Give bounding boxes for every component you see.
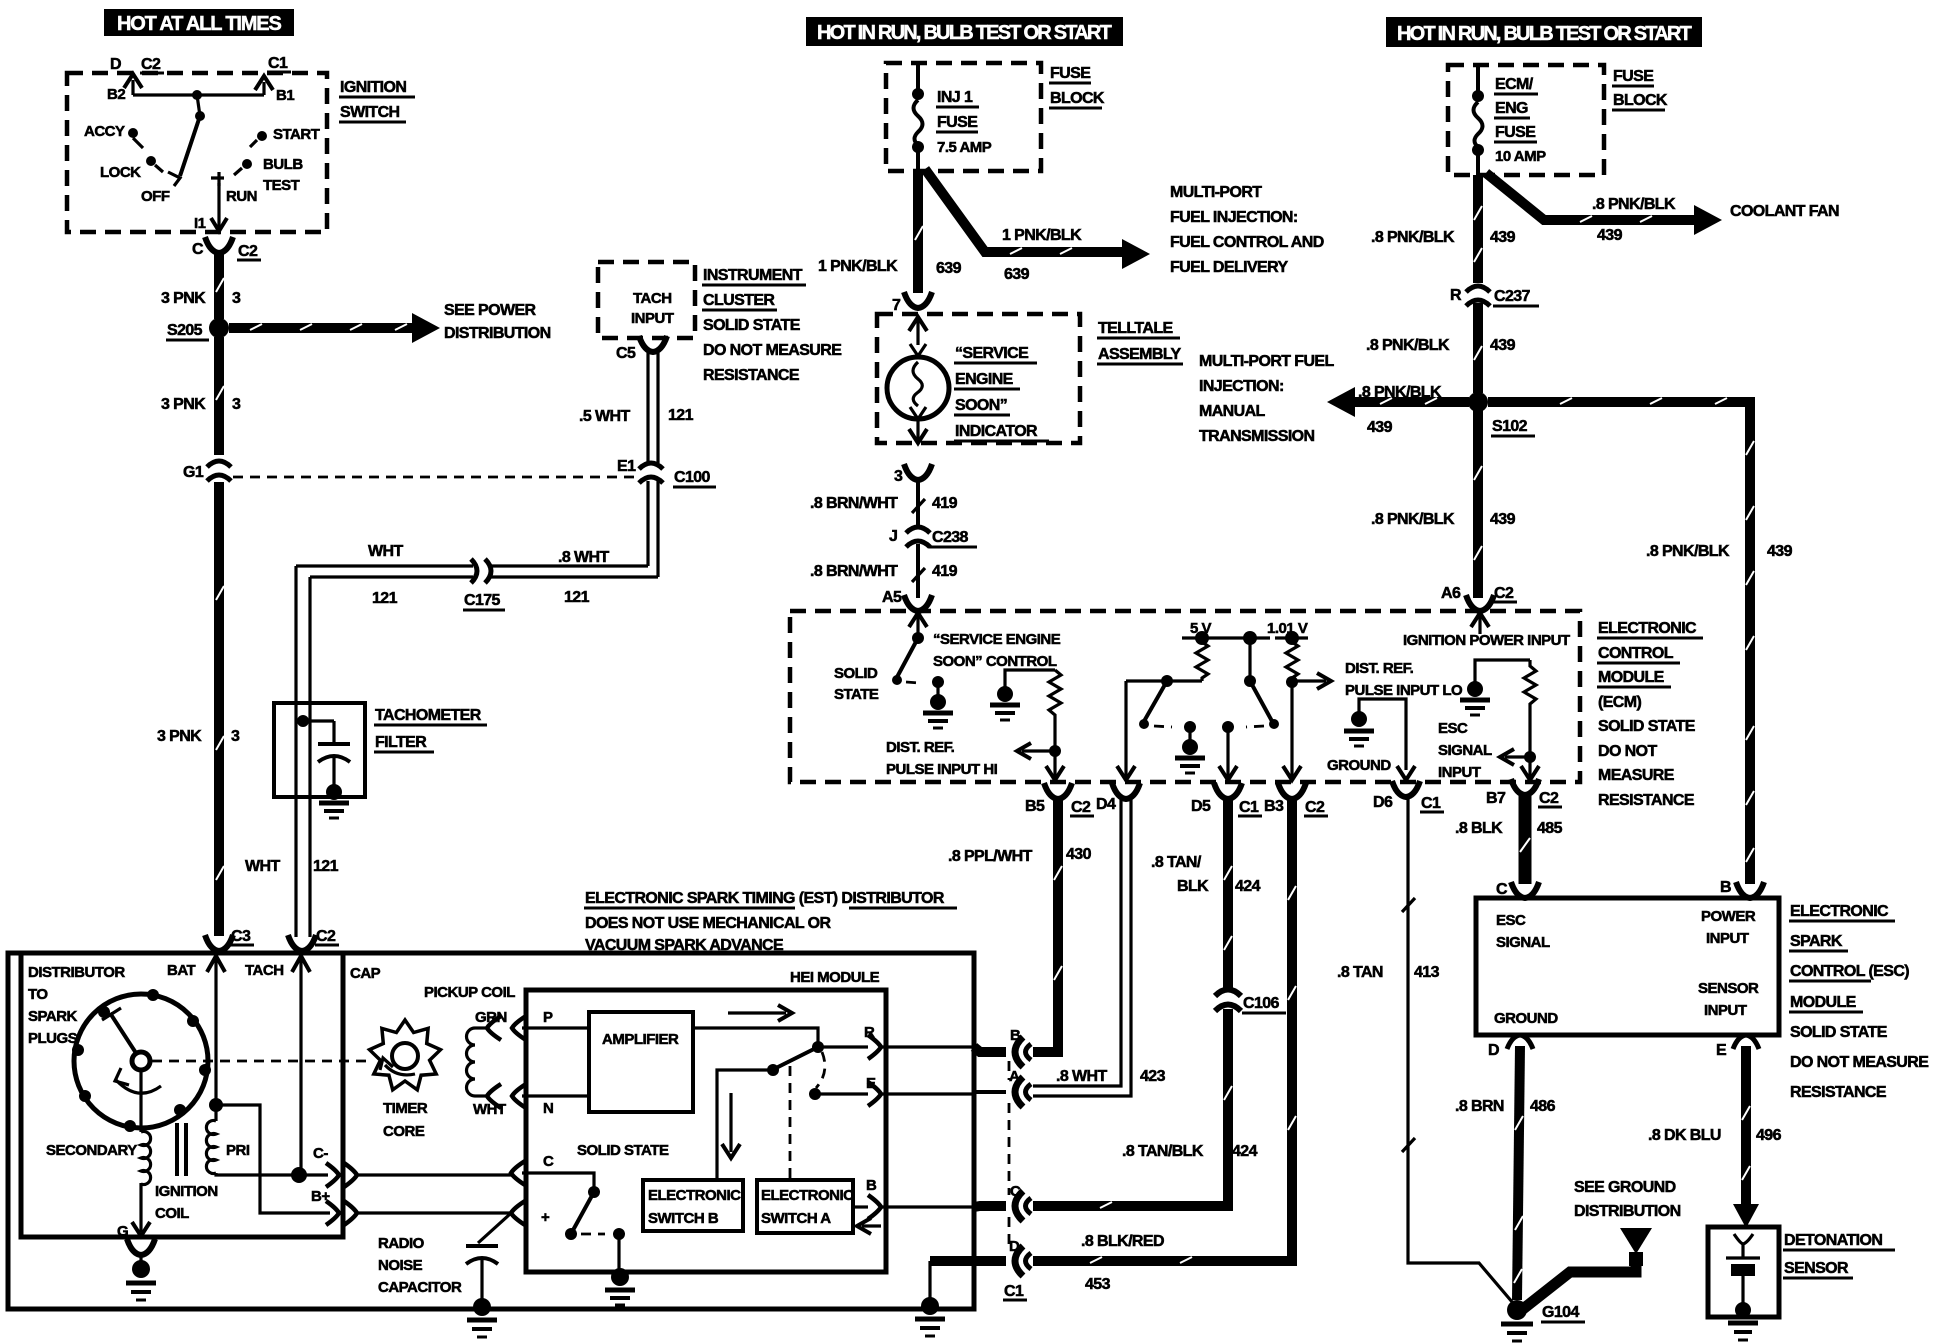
filter capacitor [303,719,334,722]
svg-text:RUN: RUN [226,188,257,205]
svg-text:ELECTRONIC: ELECTRONIC [1598,620,1697,637]
wire .8 BLK 485 (B7 to ESC C) [1519,792,1532,884]
svg-text:.8 BLK: .8 BLK [1455,820,1503,837]
svg-text:496: 496 [1756,1127,1782,1144]
svg-text:121: 121 [372,590,398,607]
svg-text:J: J [889,528,897,545]
START contact [257,131,267,141]
svg-text:PULSE INPUT HI: PULSE INPUT HI [886,761,998,778]
connector C106 [1213,990,1243,1012]
svg-text:SENSOR: SENSOR [1698,980,1759,997]
coil core bars [175,1123,179,1176]
svg-text:439: 439 [1767,543,1793,560]
wire 3 PNK G1 to C3 [214,482,224,936]
svg-text:C106: C106 [1243,995,1280,1012]
svg-text:DOES NOT USE MECHANICAL OR: DOES NOT USE MECHANICAL OR [585,915,832,932]
dashed wire G1 to C100 [233,476,638,479]
entry arrow into telltale [916,316,919,345]
svg-text:B7: B7 [1486,790,1506,807]
dashed link between connectors [1008,1061,1011,1080]
dashed link rotor to timer core [152,1060,371,1063]
svg-text:C3: C3 [231,928,251,945]
arrow to dist ref lo [1292,679,1326,682]
svg-text:D: D [1488,1042,1499,1059]
svg-text:B3: B3 [1264,798,1284,815]
svg-text:DO NOT MEASURE: DO NOT MEASURE [703,342,842,359]
resistor under 1.01V [1286,638,1298,681]
node below [195,111,205,121]
svg-text:PULSE INPUT LO: PULSE INPUT LO [1345,682,1463,699]
wire S102 down to A6 [1473,402,1483,598]
wire arrow up to C2 [131,80,134,95]
svg-text:S205: S205 [167,322,203,339]
BULB TEST contact [242,159,252,169]
dashed lever alternate to E [816,1052,825,1088]
svg-text:TEST: TEST [263,177,300,194]
primary winding [209,1098,223,1112]
svg-text:.8 TAN/: .8 TAN/ [1151,854,1202,871]
svg-text:D6: D6 [1373,794,1393,811]
amplifier box [589,1012,693,1112]
svg-text:LOCK: LOCK [100,164,141,181]
ACCY contact [128,128,138,138]
svg-text:ACCY: ACCY [84,123,125,140]
middle comparator [1248,638,1251,681]
wire .8 PPL/WHT 430 (B5 to dist B) [1033,796,1058,1052]
svg-text:OFF: OFF [141,188,170,205]
svg-text:D5: D5 [1191,798,1211,815]
svg-text:HOT AT ALL TIMES: HOT AT ALL TIMES [117,13,282,35]
svg-text:ELECTRONIC SPARK TIMING (EST): ELECTRONIC SPARK TIMING (EST) DISTRIBUTO… [585,890,945,907]
svg-text:FUSE: FUSE [937,114,978,131]
svg-text:ELECTRONIC: ELECTRONIC [1790,903,1889,920]
svg-text:C238: C238 [932,529,969,546]
svg-text:424: 424 [1232,1143,1258,1160]
wire E to A connector [880,1092,974,1095]
svg-text:FUEL INJECTION:: FUEL INJECTION: [1170,209,1298,226]
svg-text:B2: B2 [107,86,125,103]
ground G104 [1507,1300,1527,1320]
wire arrow to manual transmission [1352,397,1469,407]
svg-text:IGNITION POWER INPUT: IGNITION POWER INPUT [1403,632,1570,649]
svg-text:(ECM): (ECM) [1598,694,1641,711]
svg-text:MODULE: MODULE [1790,994,1857,1011]
switch lever [180,116,200,176]
svg-text:C2: C2 [1305,799,1325,816]
A5 entry arrow [916,613,919,636]
banner HOT IN RUN, BULB TEST OR START (right) [1386,17,1702,47]
svg-text:START: START [273,126,320,143]
svg-text:ENGINE: ENGINE [955,371,1014,388]
svg-text:PLUGS: PLUGS [28,1030,78,1047]
svg-text:INDICATOR: INDICATOR [955,423,1038,440]
svg-text:SOON” CONTROL: SOON” CONTROL [933,653,1057,670]
banner HOT AT ALL TIMES [104,9,294,36]
rotor circle [74,994,208,1128]
svg-text:439: 439 [1490,229,1516,246]
svg-text:639: 639 [936,260,962,277]
wire ground to D connector [930,1256,1006,1266]
svg-text:C1: C1 [268,55,288,72]
svg-text:FUEL DELIVERY: FUEL DELIVERY [1170,259,1288,276]
see ground arrow [1620,1228,1652,1254]
wire .8 DK BLU 496 (ESC E to det sensor) [1741,1046,1751,1212]
connector C2 at distributor tach [288,935,316,951]
instrument cluster TACH INPUT box [598,262,695,338]
splice S205 [209,318,229,338]
svg-text:DO NOT: DO NOT [1598,743,1657,760]
splice S102 [1468,392,1488,412]
svg-text:WHT: WHT [473,1101,506,1118]
wire .8 BRN 486 (ESC D to G104) [1517,1046,1520,1300]
svg-text:B1: B1 [276,87,294,104]
svg-text:ENG: ENG [1495,100,1528,117]
svg-text:413: 413 [1414,964,1440,981]
svg-text:MEASURE: MEASURE [1598,767,1675,784]
ground ball 1 in ECM [936,682,939,696]
ground ball 2 in ECM [990,686,1020,720]
wire C- run [356,1173,511,1176]
wire amp to switch [693,1028,818,1044]
svg-text:485: 485 [1537,820,1563,837]
svg-text:SOLID STATE: SOLID STATE [577,1142,669,1159]
svg-text:.5 WHT: .5 WHT [579,408,630,425]
svg-text:SPARK: SPARK [1790,933,1843,950]
LOCK contact [146,156,156,166]
svg-text:BAT: BAT [167,962,196,979]
ground under coil [132,1260,150,1278]
svg-text:C1: C1 [1239,799,1259,816]
wire .8 BRN/WHT to C238 [916,477,920,527]
svg-text:INPUT: INPUT [1704,1002,1747,1019]
svg-text:CONTROL: CONTROL [1598,645,1674,662]
svg-text:.8 BRN/WHT: .8 BRN/WHT [810,495,898,512]
svg-text:HEI MODULE: HEI MODULE [790,969,880,986]
svg-text:A6: A6 [1441,585,1461,602]
svg-text:MULTI-PORT: MULTI-PORT [1170,184,1262,201]
resistor under 5V [1196,638,1208,681]
svg-text:C2: C2 [1494,585,1514,602]
svg-text:MULTI-PORT FUEL: MULTI-PORT FUEL [1199,353,1335,370]
svg-text:“SERVICE: “SERVICE [955,345,1029,362]
svg-text:FUSE: FUSE [1050,65,1091,82]
svg-text:IGNITION: IGNITION [340,79,406,96]
svg-text:AMPLIFIER: AMPLIFIER [602,1031,679,1048]
svg-text:639: 639 [1004,266,1030,283]
svg-text:SWITCH: SWITCH [340,104,400,121]
svg-text:.8 BRN: .8 BRN [1455,1098,1504,1115]
LO ground ball [1460,681,1490,715]
B3 exit wire [1290,682,1293,777]
svg-text:.8 PNK/BLK: .8 PNK/BLK [1366,337,1450,354]
svg-text:HOT IN RUN, BULB TEST OR START: HOT IN RUN, BULB TEST OR START [817,22,1112,44]
svg-text:.8 PNK/BLK: .8 PNK/BLK [1371,229,1455,246]
ground radio capacitor [473,1298,491,1316]
wire G to ground [139,1183,142,1232]
branch wire to coolant fan [1486,173,1697,220]
RUN contact [211,172,224,186]
svg-text:439: 439 [1597,227,1623,244]
HEI module box [526,990,886,1272]
wire .8 BRN/WHT to A5 [916,544,920,598]
svg-text:FILTER: FILTER [375,734,427,751]
svg-text:MANUAL: MANUAL [1199,403,1266,420]
svg-text:ASSEMBLY: ASSEMBLY [1098,346,1182,363]
svg-text:C175: C175 [464,592,501,609]
svg-text:FUSE: FUSE [1495,124,1536,141]
ECM/ENG fuse element [1476,66,1480,93]
svg-text:B5: B5 [1025,798,1045,815]
detonation sensor box [1708,1227,1779,1317]
junction to B5 [1049,745,1061,757]
svg-text:3: 3 [231,728,240,745]
ECM box [790,611,1580,782]
svg-text:GROUND: GROUND [1494,1010,1558,1027]
svg-text:TACH: TACH [245,962,284,979]
svg-text:SOLID: SOLID [834,665,878,682]
wire WHT 121 horizontal pair to C175 [296,564,648,567]
B7 exit arrow [1528,757,1531,777]
svg-text:10 AMP: 10 AMP [1495,148,1546,165]
SES bulb [910,344,926,356]
svg-text:3 PNK: 3 PNK [157,728,202,745]
svg-text:HOT IN RUN, BULB TEST OR START: HOT IN RUN, BULB TEST OR START [1397,23,1692,45]
ESC signal pullup resistor [1524,660,1536,757]
svg-text:SIGNAL: SIGNAL [1438,742,1492,759]
svg-text:CAPACITOR: CAPACITOR [378,1279,462,1296]
wire 3 PNK ignition to S205 [214,250,224,319]
svg-text:453: 453 [1085,1276,1111,1293]
electronic switch B box [643,1180,743,1231]
svg-text:GROUND: GROUND [1327,757,1391,774]
svg-text:419: 419 [932,495,958,512]
svg-text:430: 430 [1066,846,1092,863]
svg-text:RESISTANCE: RESISTANCE [1598,792,1695,809]
svg-text:1 PNK/BLK: 1 PNK/BLK [1002,227,1082,244]
svg-text:439: 439 [1490,511,1516,528]
ground on distributor case [921,1297,939,1315]
filter junction node [297,715,309,727]
wire .8 TAN/BLK 424 (D5 to dist C) [1033,796,1228,1206]
svg-text:TELLTALE: TELLTALE [1098,320,1174,337]
wire 3 PNK S205 to G1 [214,337,224,455]
wire R to B connector [880,1045,974,1048]
svg-text:WHT: WHT [368,543,403,560]
svg-text:DISTRIBUTION: DISTRIBUTION [444,325,551,342]
svg-text:SIGNAL: SIGNAL [1496,934,1550,951]
svg-text:+: + [541,1209,550,1226]
svg-text:C2: C2 [316,928,336,945]
switch lever to B contact [774,1047,818,1069]
svg-text:SEE GROUND: SEE GROUND [1574,1179,1676,1196]
svg-text:R: R [1450,287,1462,304]
svg-text:G1: G1 [183,464,204,481]
svg-text:“SERVICE ENGINE: “SERVICE ENGINE [933,631,1061,648]
svg-text:C2: C2 [141,56,161,73]
svg-text:BULB: BULB [263,156,303,173]
arrow right above amplifier [728,1011,786,1014]
svg-text:PICKUP COIL: PICKUP COIL [424,984,515,1001]
svg-text:423: 423 [1140,1068,1166,1085]
svg-text:.8 BRN/WHT: .8 BRN/WHT [810,563,898,580]
svg-text:COIL: COIL [155,1205,189,1222]
OFF contact [168,172,180,186]
wire B to C connector [880,1205,974,1208]
wire .8 BLK/RED 453 (B3 to dist D) [1033,796,1292,1261]
svg-text:1 PNK/BLK: 1 PNK/BLK [818,258,898,275]
svg-text:STATE: STATE [834,686,879,703]
svg-text:7.5 AMP: 7.5 AMP [937,139,992,156]
svg-text:CLUSTER: CLUSTER [703,292,775,309]
svg-text:TO: TO [28,986,48,1003]
wire LO to resistor [1475,660,1530,683]
svg-text:SOON”: SOON” [955,397,1007,414]
svg-text:INPUT: INPUT [1438,764,1481,781]
svg-text:CONTROL (ESC): CONTROL (ESC) [1790,963,1909,980]
svg-text:486: 486 [1530,1098,1556,1115]
svg-text:G104: G104 [1542,1304,1579,1321]
svg-text:439: 439 [1490,337,1516,354]
timer core star [370,1020,441,1090]
exit arrow from telltale [916,419,919,440]
ground in HEI [611,1268,629,1286]
svg-text:B: B [866,1177,877,1194]
svg-text:SWITCH A: SWITCH A [761,1210,831,1227]
svg-text:C237: C237 [1494,288,1531,305]
svg-text:.8 PNK/BLK: .8 PNK/BLK [1358,384,1442,401]
svg-text:CAP: CAP [350,965,381,982]
secondary winding [139,1070,142,1132]
svg-text:ECM/: ECM/ [1495,76,1534,93]
wire switch to R [818,1045,868,1048]
svg-text:419: 419 [932,563,958,580]
svg-text:WHT: WHT [245,858,280,875]
connector C3 at distributor [205,935,233,951]
wire S102 branch right [1488,402,1750,884]
ignition switch box [67,73,327,232]
tachometer filter box [274,703,365,797]
electronic switch A box [757,1180,853,1233]
svg-text:RADIO: RADIO [378,1235,425,1252]
svg-text:.8 PNK/BLK: .8 PNK/BLK [1371,511,1455,528]
svg-text:G: G [117,1223,128,1240]
resistor (SES pullup) [1049,670,1061,753]
svg-text:C5: C5 [616,345,636,362]
svg-text:NOISE: NOISE [378,1257,423,1274]
svg-text:TRANSMISSION: TRANSMISSION [1199,428,1315,445]
thick elbow to G104 [1523,1264,1636,1309]
det sensor internals [1734,1234,1753,1258]
B5 exit arrow [1053,751,1056,777]
svg-text:TACH: TACH [633,290,672,307]
wire BAT branch to B+ [216,1105,330,1213]
svg-text:BLOCK: BLOCK [1050,90,1105,107]
svg-text:ESC: ESC [1496,912,1526,929]
fuse block (INJ 1) box [886,63,1041,171]
radio noise capacitor [466,1244,498,1248]
wire .8 PNK/BLK fuse to C237 [1473,175,1483,283]
svg-text:C-: C- [313,1145,328,1162]
svg-text:3 PNK: 3 PNK [161,396,206,413]
svg-text:.8 TAN: .8 TAN [1337,964,1383,981]
rotor rotation arrow [116,1080,161,1093]
svg-text:DISTRIBUTOR: DISTRIBUTOR [28,964,125,981]
svg-text:SWITCH B: SWITCH B [648,1210,719,1227]
arrow down inside HEI [729,1093,732,1152]
svg-text:SEE POWER: SEE POWER [444,302,537,319]
svg-text:INJ 1: INJ 1 [937,89,973,106]
svg-text:D4: D4 [1096,796,1116,813]
svg-text:SOLID STATE: SOLID STATE [1598,718,1696,735]
svg-text:A5: A5 [882,589,902,606]
wire pri bottom to C- node [216,1173,299,1175]
wire arrow SEE POWER DISTRIBUTION [229,323,415,333]
radio noise capacitor tap [478,1214,510,1243]
SES control switch [912,632,924,644]
branch wire to fuel injection [925,169,1125,252]
svg-text:P: P [543,1009,553,1026]
svg-text:SECONDARY: SECONDARY [46,1142,137,1159]
A6 entry arrow [1478,613,1481,634]
INJ 1 fuse element [916,64,920,92]
ESC module box [1476,898,1779,1035]
svg-text:ELECTRONIC: ELECTRONIC [648,1187,741,1204]
connector C175 [471,557,491,585]
svg-text:C2: C2 [1539,790,1559,807]
svg-text:.8 BLK/RED: .8 BLK/RED [1081,1233,1164,1250]
svg-text:TACHOMETER: TACHOMETER [375,707,482,724]
svg-text:3: 3 [894,468,903,485]
svg-text:RESISTANCE: RESISTANCE [703,367,800,384]
wire .8 WHT 423 (D4 to dist A) double line [1033,796,1121,1086]
svg-text:121: 121 [668,407,694,424]
wire .8 PNK/BLK C237 to S102 [1473,303,1483,393]
svg-text:SPARK: SPARK [28,1008,78,1025]
svg-text:DETONATION: DETONATION [1784,1232,1882,1249]
wire arrow up to C1 [262,82,265,95]
svg-text:C: C [543,1153,554,1170]
filter ground [319,784,349,818]
distributor inner box [21,953,343,1237]
svg-text:7: 7 [892,297,901,314]
svg-text:C1: C1 [1421,795,1441,812]
svg-text:C: C [1496,881,1508,898]
fuse block (ECM/ENG) box [1448,65,1604,175]
svg-text:DISTRIBUTION: DISTRIBUTION [1574,1203,1681,1220]
svg-text:BLOCK: BLOCK [1613,92,1668,109]
arrow into switch A [862,1224,881,1227]
svg-text:C1: C1 [1004,1283,1024,1300]
svg-text:SENSOR: SENSOR [1784,1260,1849,1277]
svg-text:.8 WHT: .8 WHT [1056,1068,1107,1085]
wire .8 TAN 413 (D6 to G104) [1408,794,1513,1303]
telltale assembly box [877,314,1080,443]
svg-text:E: E [1716,1042,1727,1059]
svg-text:.8 PPL/WHT: .8 PPL/WHT [948,848,1033,865]
D5 exit wire [1226,727,1229,777]
svg-text:RESISTANCE: RESISTANCE [1790,1084,1887,1101]
C2 connector under switch [205,237,233,253]
svg-text:121: 121 [564,589,590,606]
svg-text:INPUT: INPUT [631,310,674,327]
svg-text:COOLANT FAN: COOLANT FAN [1730,203,1839,220]
svg-text:3: 3 [232,396,241,413]
svg-text:.8 TAN/BLK: .8 TAN/BLK [1122,1143,1204,1160]
svg-text:C100: C100 [674,469,711,486]
svg-text:INPUT: INPUT [1706,930,1749,947]
pickup coil winding [467,1028,476,1096]
svg-text:PRI: PRI [226,1142,250,1159]
